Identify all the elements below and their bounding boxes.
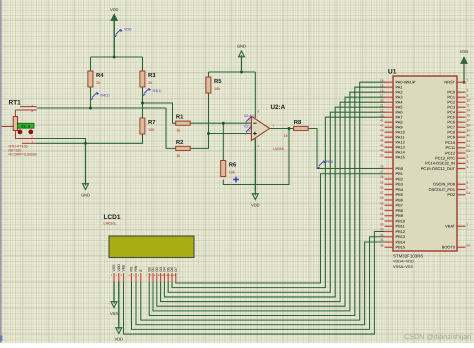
resistor R5 (206, 77, 222, 93)
svg-text:8: 8 (467, 88, 469, 92)
wire LCD VSS to ground (113, 282, 115, 299)
svg-text:PC15-OSC32_OUT: PC15-OSC32_OUT (421, 166, 456, 171)
svg-text:R3: R3 (148, 72, 156, 79)
wire GND stem left (85, 143, 87, 185)
svg-text:VDDA=VDD: VDDA=VDD (393, 260, 414, 264)
svg-text:VDD: VDD (115, 337, 124, 342)
svg-text:4: 4 (467, 165, 469, 169)
svg-text:10: 10 (467, 98, 471, 102)
svg-text:20: 20 (380, 98, 384, 102)
svg-text:56: 56 (380, 186, 384, 190)
wire R4 bottom to node A (90, 87, 92, 108)
svg-text:PB4: PB4 (396, 187, 404, 192)
svg-text:STM32F103R6: STM32F103R6 (393, 254, 423, 259)
svg-text:60: 60 (467, 243, 471, 247)
svg-text:LCD1: LCD1 (104, 214, 121, 221)
lcd LCD1 (104, 214, 195, 258)
marker blue cross (233, 177, 239, 183)
wire LCD D5 to PA6 (168, 112, 385, 292)
mcu U1 STM32F103R6 (388, 69, 457, 269)
wire RT1 pin3 node to R2 branch (37, 107, 166, 109)
svg-text:PD2: PD2 (447, 192, 455, 197)
svg-text:44: 44 (380, 133, 384, 137)
voltage probe R3(1) (143, 88, 162, 96)
svg-text:PB6: PB6 (396, 197, 403, 202)
power VSS (110, 281, 118, 316)
svg-text:VSS: VSS (112, 264, 116, 272)
svg-text:59: 59 (380, 201, 384, 205)
svg-text:21: 21 (380, 103, 384, 107)
resistor R4 (88, 71, 104, 87)
junction VDD rail (113, 56, 116, 59)
wire LCD D4 to PA5 (164, 107, 384, 297)
power VDD (251, 139, 260, 208)
wire LCD RW to PB14 (136, 242, 385, 325)
wire divider node to R1 left (143, 103, 176, 123)
svg-text:37: 37 (467, 118, 471, 122)
svg-text:U1: U1 (388, 69, 397, 76)
svg-text:33: 33 (380, 228, 384, 232)
svg-text:VSSA=VSS: VSSA=VSS (393, 265, 413, 269)
wire LCD D3 to PA4 (161, 102, 385, 301)
svg-text:46: 46 (380, 143, 384, 147)
svg-text:54: 54 (467, 191, 471, 195)
svg-text:5: 5 (467, 180, 469, 184)
svg-text:42: 42 (380, 123, 384, 127)
svg-text:100: 100 (148, 128, 154, 132)
svg-text:PC9: PC9 (447, 135, 455, 140)
svg-text:R4(1): R4(1) (101, 94, 110, 98)
svg-text:11: 11 (467, 103, 471, 107)
resistor R1 (176, 114, 191, 133)
svg-text:1k: 1k (176, 129, 180, 133)
svg-text:3: 3 (467, 160, 469, 164)
left bar marker (0, 336, 2, 342)
frame left edge (0, 0, 2, 343)
wire op-amp pin8 power (254, 72, 256, 118)
svg-text:PB1: PB1 (396, 171, 403, 176)
svg-text:34: 34 (380, 233, 384, 237)
svg-text:PB5: PB5 (396, 192, 403, 197)
svg-text:15: 15 (380, 83, 384, 87)
power VDD (110, 7, 119, 57)
junction inverting node (222, 122, 225, 125)
wire branch down to R2 left (166, 108, 176, 148)
voltage probe VDD (115, 28, 132, 38)
svg-text:VDD: VDD (460, 49, 469, 54)
svg-text:50: 50 (380, 153, 384, 157)
wire non-inverting input (209, 133, 252, 135)
svg-text:57: 57 (380, 191, 384, 195)
power VDD (115, 281, 124, 342)
svg-text:VBAT: VBAT (445, 224, 455, 229)
svg-text:39: 39 (467, 128, 471, 132)
svg-text:PB2: PB2 (396, 176, 403, 181)
svg-text:PA15: PA15 (396, 155, 405, 160)
wire LCD RS to PB13 (132, 237, 385, 330)
voltage probe U2:A(+) (244, 125, 256, 135)
svg-text:RCOMP=0.00000: RCOMP=0.00000 (9, 153, 37, 157)
svg-text:58: 58 (380, 196, 384, 200)
wire LCD E to PA0 (141, 82, 385, 320)
svg-text:1k: 1k (176, 154, 180, 158)
voltage probe U2:A(-) (244, 114, 256, 124)
wire LCD D6 to PA7 (172, 117, 385, 287)
svg-text:27: 27 (380, 170, 384, 174)
wire LCD D1 to PA2 (153, 92, 385, 311)
junction node A (R4/RT1) (89, 107, 92, 110)
lcd pin labels and stubs (111, 264, 178, 282)
svg-text:28: 28 (380, 175, 384, 179)
svg-text:2k: 2k (96, 81, 100, 85)
svg-text:38: 38 (467, 123, 471, 127)
junction op-amp output (288, 127, 291, 130)
svg-text:R3(1): R3(1) (153, 89, 162, 93)
wire VDD rail R4-R3 (91, 56, 143, 58)
svg-text:52: 52 (467, 144, 471, 148)
svg-text:PB14: PB14 (396, 239, 406, 244)
svg-text:49: 49 (380, 148, 384, 152)
wire R4 top lead (90, 57, 92, 71)
svg-text:14: 14 (380, 78, 384, 82)
wire R2 right up to non-inverting node (190, 134, 208, 149)
svg-text:LM358: LM358 (273, 147, 284, 151)
svg-text:17: 17 (380, 93, 384, 97)
svg-text:1k: 1k (284, 134, 288, 138)
svg-text:28.0: 28.0 (21, 124, 31, 129)
thermistor RT1 (1, 100, 37, 157)
svg-text:24: 24 (467, 108, 471, 112)
op-amp U2:A (249, 104, 286, 151)
power GND (237, 44, 246, 73)
junction non-inverting node (207, 132, 210, 135)
wire op-amp pin4 power down (254, 139, 256, 191)
svg-text:R6: R6 (229, 162, 237, 169)
svg-text:25: 25 (467, 113, 471, 117)
resistor R2 (176, 139, 191, 158)
wire R5 bottom lead (208, 93, 210, 134)
wire VDD stem (113, 21, 115, 57)
svg-text:2k: 2k (148, 81, 152, 85)
svg-text:1: 1 (467, 222, 469, 226)
svg-text:29: 29 (380, 217, 384, 221)
svg-text:BOOT0: BOOT0 (442, 245, 456, 250)
svg-text:62: 62 (380, 212, 384, 216)
resistor R6 (221, 161, 237, 177)
wire R7 bottom to RT1 pin1 (36, 134, 143, 143)
svg-text:RW: RW (134, 265, 138, 271)
svg-text:51: 51 (467, 139, 471, 143)
svg-text:43: 43 (380, 128, 384, 132)
svg-text:PB0: PB0 (326, 160, 333, 164)
svg-text:40: 40 (467, 133, 471, 137)
svg-text:PB9: PB9 (396, 213, 403, 218)
svg-text:23: 23 (380, 113, 384, 117)
svg-text:PB10: PB10 (396, 218, 406, 223)
svg-text:VSS: VSS (110, 311, 118, 316)
wire op-amp output to R8 (270, 128, 294, 130)
svg-text:PB13: PB13 (396, 234, 406, 239)
junction NRST/VDD (463, 81, 466, 84)
svg-text:NRST: NRST (444, 80, 455, 85)
svg-text:VEE: VEE (122, 264, 126, 272)
voltage probe R4(1) (91, 92, 110, 100)
svg-text:PB15: PB15 (396, 245, 406, 250)
svg-text:26: 26 (380, 165, 384, 169)
junction node B (R3/R7) (141, 102, 144, 105)
svg-text:6: 6 (467, 186, 469, 190)
svg-text:U2:A: U2:A (271, 104, 286, 111)
wire LCD D2 to PA3 (157, 97, 385, 306)
svg-text:GND: GND (81, 193, 90, 198)
svg-text:PB7: PB7 (396, 203, 403, 208)
svg-text:55: 55 (380, 180, 384, 184)
wire LCD VDD to power (118, 282, 120, 325)
wire RT1 pin2 jog to ground node (36, 139, 86, 144)
wire LCD D7 to PB1 (176, 174, 385, 283)
svg-text:36: 36 (380, 243, 384, 247)
svg-text:VDD: VDD (110, 7, 119, 12)
svg-text:PB11: PB11 (396, 224, 405, 229)
svg-text:PB3: PB3 (396, 182, 403, 187)
svg-text:16: 16 (380, 88, 384, 92)
svg-text:10k: 10k (229, 171, 235, 175)
svg-text:R2: R2 (176, 139, 184, 146)
wire LCD VEE to PB12 (124, 232, 385, 335)
power VDD (460, 49, 469, 82)
resistor R3 (140, 71, 156, 87)
svg-text:45: 45 (380, 138, 384, 142)
wire LCD D0 to PA1 (149, 87, 385, 315)
svg-text:41: 41 (380, 118, 384, 122)
svg-text:R8: R8 (294, 119, 302, 126)
svg-text:10k: 10k (214, 87, 220, 91)
wire R6 top lead (222, 123, 224, 160)
wire R3 top lead (142, 57, 144, 71)
svg-text:D7: D7 (174, 267, 178, 272)
mcu U1 right pins (421, 78, 470, 249)
wire R8 to PB0 (308, 129, 385, 169)
svg-text:RT1: RT1 (9, 100, 22, 107)
wire R6 bottom feedback loop (223, 129, 289, 185)
svg-text:PB12: PB12 (396, 229, 406, 234)
wire GND rail above op-amp (209, 71, 256, 73)
svg-text:LM016L: LM016L (104, 222, 117, 226)
svg-text:R4: R4 (96, 72, 104, 79)
svg-text:35: 35 (380, 238, 384, 242)
wire R1 right to op-amp inverting input (190, 122, 251, 124)
svg-text:VDD: VDD (124, 28, 132, 32)
svg-text:R5: R5 (214, 78, 222, 85)
svg-text:VDD: VDD (251, 203, 260, 208)
svg-text:7: 7 (467, 78, 469, 82)
svg-text:53: 53 (467, 149, 471, 153)
mcu U1 left pins PA0-PA15 (380, 78, 416, 159)
svg-text:9: 9 (467, 93, 469, 97)
wire R5 top lead (208, 72, 210, 77)
svg-text:2: 2 (467, 154, 469, 158)
resistor R7 (140, 118, 156, 134)
svg-text:22: 22 (380, 108, 384, 112)
svg-text:30: 30 (380, 222, 384, 226)
svg-text:GND: GND (237, 44, 246, 49)
junction GND rail tap (240, 71, 243, 74)
svg-text:VDD: VDD (117, 264, 121, 272)
svg-text:PB0: PB0 (396, 166, 404, 171)
wire R3 bottom to R7 top (142, 87, 144, 118)
svg-text:OSCIN_PD0: OSCIN_PD0 (433, 182, 456, 187)
svg-text:R1: R1 (176, 114, 184, 121)
svg-text:61: 61 (380, 207, 384, 211)
resistor R8 (284, 119, 309, 138)
mcu U1 left pins PB0-PB15 (380, 165, 406, 250)
power GND (81, 143, 90, 197)
svg-text:CSDN @dianzishijan: CSDN @dianzishijan (404, 332, 471, 341)
voltage probe PB0 (318, 160, 333, 169)
junction ground tap (84, 142, 87, 145)
svg-text:RS: RS (130, 266, 134, 272)
svg-text:R7: R7 (148, 119, 156, 126)
svg-text:OSCOUT_PD1: OSCOUT_PD1 (429, 187, 455, 192)
svg-text:PB8: PB8 (396, 208, 403, 213)
